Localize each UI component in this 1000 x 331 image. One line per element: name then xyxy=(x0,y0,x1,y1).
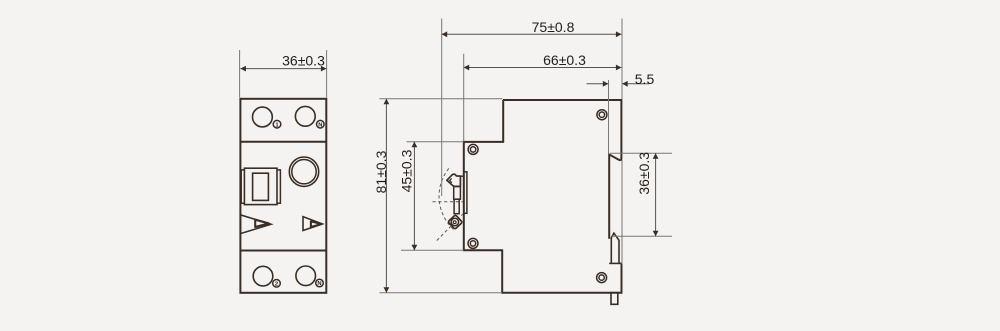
dashed center line horizontal xyxy=(433,201,465,203)
side outline upper-right with DIN notch xyxy=(503,100,621,239)
lever shaft upper xyxy=(454,186,461,199)
dimension 81±0.3: dim line xyxy=(385,99,387,293)
svg-text:36±0.3: 36±0.3 xyxy=(282,53,325,69)
DIN clip seam xyxy=(609,262,621,264)
front divider upper xyxy=(240,141,326,143)
dimension 45±0.3: dim line xyxy=(413,142,415,251)
DIN clip tab xyxy=(611,233,619,263)
dimension 81±0.3: extension lines xyxy=(379,98,502,100)
front divider lower xyxy=(240,250,326,252)
badge N top xyxy=(317,120,325,128)
svg-text:5.5: 5.5 xyxy=(635,71,655,87)
screw top-right xyxy=(597,110,607,120)
svg-text:N: N xyxy=(317,281,321,287)
svg-text:36±0.3: 36±0.3 xyxy=(636,152,652,195)
dimension 36±0.3 front: dim line xyxy=(240,68,326,70)
dashed lever axis xyxy=(437,213,464,240)
toggle left cap xyxy=(241,170,244,203)
dashed travel arc xyxy=(439,168,454,230)
screw top-left xyxy=(468,144,478,154)
indicator arrow left outer xyxy=(240,215,271,234)
badge 2 xyxy=(273,280,281,288)
lever pivot square xyxy=(448,215,462,229)
lever shaft lower xyxy=(454,199,459,214)
dimension 66±0.3: dim line xyxy=(464,67,622,69)
terminal circle top-right xyxy=(295,106,315,126)
lever pivot dot xyxy=(453,221,456,224)
dimension 45±0.3: extension lines xyxy=(407,141,464,143)
svg-text:N: N xyxy=(318,122,322,128)
front view body outline xyxy=(240,99,326,293)
dimension 36±0.3 front: extension lines xyxy=(239,50,241,98)
toggle frame rails xyxy=(244,168,277,204)
indicator arrow right outer xyxy=(303,217,322,231)
toggle rocker xyxy=(253,173,269,200)
screw bottom-right xyxy=(597,273,607,283)
lever pivot circle xyxy=(451,218,458,225)
dimension 5.5: extension line xyxy=(608,80,610,153)
svg-text:45±0.3: 45±0.3 xyxy=(399,149,415,192)
lever slot bezel xyxy=(464,172,467,214)
terminal circle top-left xyxy=(253,107,273,127)
dimension 36±0.3 side: dim line xyxy=(655,153,657,236)
screw bottom-left xyxy=(468,238,478,248)
svg-text:75±0.8: 75±0.8 xyxy=(532,19,575,35)
badge 1 xyxy=(273,120,281,128)
dimension 75±0.8: dim line xyxy=(442,33,622,35)
svg-text:2: 2 xyxy=(275,281,278,287)
dimension 36±0.3 side: extension lines xyxy=(610,152,672,154)
lever handle beak xyxy=(447,174,461,186)
bottom foot xyxy=(611,293,618,305)
dimension 75±0.8: extension lines xyxy=(441,19,443,197)
svg-text:66±0.3: 66±0.3 xyxy=(543,52,586,68)
toggle right cap xyxy=(277,170,280,203)
dimension 66±0.3: extension line xyxy=(463,54,465,141)
side outline main xyxy=(464,100,622,293)
indicator arrow left inner xyxy=(255,220,269,227)
svg-text:81±0.3: 81±0.3 xyxy=(373,150,389,193)
lever handle inner chevron xyxy=(450,178,452,182)
terminal circle bottom-right xyxy=(296,266,316,286)
lever ledge to body xyxy=(460,175,463,177)
dimension 5.5: dim line + arrows xyxy=(587,83,609,85)
test button ring xyxy=(289,157,318,186)
terminal circle bottom-left xyxy=(253,266,273,286)
indicator arrow right inner xyxy=(311,221,322,227)
badge N bottom xyxy=(316,279,324,287)
